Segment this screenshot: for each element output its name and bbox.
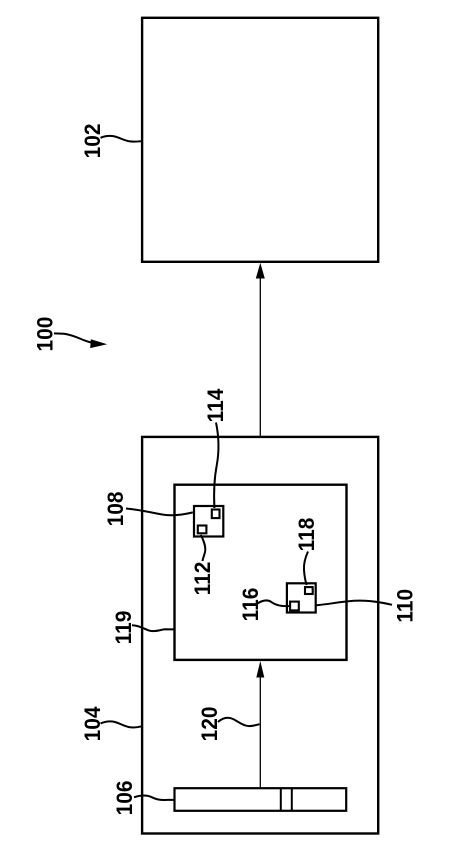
- label 104: [79, 706, 105, 741]
- arrow 100 (reference arrow): [54, 333, 107, 348]
- label 110: [392, 589, 418, 623]
- leader wire from label 114 to port 114: [214, 423, 218, 509]
- leader wire from block 110 to label 110: [317, 601, 393, 606]
- block 104: [142, 437, 378, 834]
- svg-text:114: 114: [202, 389, 228, 423]
- label 108: [102, 491, 128, 526]
- label 102: [79, 123, 105, 158]
- leader wire from label 112 to port 112: [201, 535, 206, 561]
- block 119 (inner block): [175, 485, 347, 660]
- port 114 pad (top-right square of block 108): [212, 510, 220, 519]
- svg-text:119: 119: [110, 611, 136, 645]
- svg-text:106: 106: [111, 780, 137, 815]
- leader wire from label 116 to port 116: [258, 600, 290, 606]
- block 110 (module): [287, 583, 316, 612]
- port 112 pad (bottom-left square of block 108): [198, 526, 207, 534]
- bus 106 divider 2: [291, 788, 293, 811]
- label 116: [237, 588, 263, 622]
- block 102: [142, 18, 378, 262]
- leader wire from label 104 to block 104: [101, 721, 142, 727]
- svg-text:100: 100: [32, 317, 58, 352]
- svg-text:110: 110: [392, 589, 418, 623]
- label 100: [32, 317, 58, 352]
- svg-text:108: 108: [102, 491, 128, 526]
- svg-text:118: 118: [293, 518, 319, 552]
- leader wire from label 120 to wire 120: [218, 718, 260, 726]
- leader wire from label 118 to port 118: [304, 552, 308, 586]
- leader wire from label 108 to block 108: [126, 509, 193, 516]
- label 118: [293, 518, 319, 552]
- port 118 pad (top-right square of block 110): [305, 587, 313, 594]
- svg-text:120: 120: [196, 706, 222, 741]
- block 108 (module): [194, 506, 223, 537]
- label 119: [110, 611, 136, 645]
- leader wire from label 102 to block 102: [101, 136, 142, 142]
- leader wire from label 106 to bus 106: [134, 796, 174, 800]
- wire arrow from block 104 to block 102: [256, 263, 265, 436]
- wire arrow 120 from bus 106 to block 119: [256, 661, 264, 787]
- label 114: [202, 389, 228, 423]
- bus 106 divider 1: [280, 788, 282, 811]
- svg-text:116: 116: [237, 588, 263, 622]
- leader wire from label 119 to block 119: [132, 625, 174, 631]
- svg-text:102: 102: [79, 123, 105, 158]
- svg-text:112: 112: [189, 562, 215, 596]
- label 120: [196, 706, 222, 741]
- label 106: [111, 780, 137, 815]
- label 112: [189, 562, 215, 596]
- bus 106 (segmented bar): [175, 788, 347, 811]
- port 116 pad (bottom-left square of block 110): [290, 602, 299, 611]
